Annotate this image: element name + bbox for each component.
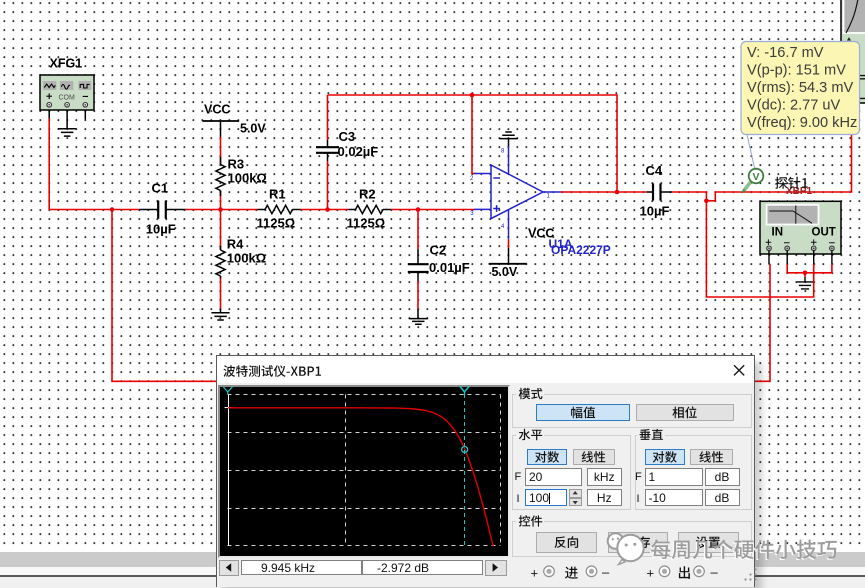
- svg-text:V: V: [752, 171, 759, 183]
- svg-text:C1: C1: [152, 181, 169, 196]
- svg-text:XBP1: XBP1: [786, 186, 813, 197]
- svg-text:10µF: 10µF: [640, 204, 670, 219]
- svg-text:5.0V: 5.0V: [240, 122, 266, 136]
- svg-text:C3: C3: [339, 129, 356, 144]
- svg-text:1: 1: [547, 194, 551, 200]
- svg-text:10µF: 10µF: [146, 222, 176, 237]
- svg-text:V(p-p): 151 mV: V(p-p): 151 mV: [747, 63, 846, 79]
- svg-text:3: 3: [470, 211, 474, 217]
- svg-text:R2: R2: [359, 187, 376, 202]
- svg-text:OPA2227P: OPA2227P: [551, 243, 611, 257]
- svg-text:COM: COM: [59, 95, 76, 102]
- svg-text:C4: C4: [646, 163, 663, 178]
- svg-text:1125Ω: 1125Ω: [347, 216, 386, 231]
- svg-text:V: -16.7 mV: V: -16.7 mV: [747, 45, 824, 61]
- svg-text:1125Ω: 1125Ω: [257, 216, 296, 231]
- svg-text:C2: C2: [430, 243, 447, 258]
- svg-text:2: 2: [470, 176, 474, 182]
- svg-text:8: 8: [501, 149, 505, 155]
- svg-text:R4: R4: [227, 237, 244, 252]
- svg-text:R1: R1: [269, 187, 286, 202]
- svg-text:5.0V: 5.0V: [492, 265, 518, 279]
- svg-text:OUT: OUT: [812, 226, 836, 238]
- svg-text:V(rms): 54.3 mV: V(rms): 54.3 mV: [747, 80, 853, 96]
- svg-text:100kΩ: 100kΩ: [228, 171, 267, 186]
- svg-text:100kΩ: 100kΩ: [227, 250, 266, 265]
- svg-text:IN: IN: [772, 226, 784, 238]
- svg-text:XFG1: XFG1: [50, 57, 83, 71]
- svg-text:0.02µF: 0.02µF: [338, 144, 379, 159]
- svg-text:4: 4: [501, 224, 505, 230]
- svg-text:R3: R3: [228, 157, 245, 172]
- svg-text:VCC: VCC: [204, 102, 230, 116]
- svg-text:V(dc): 2.77 uV: V(dc): 2.77 uV: [747, 97, 841, 113]
- svg-text:0.01µF: 0.01µF: [429, 260, 470, 275]
- svg-text:V(freq): 9.00 kHz: V(freq): 9.00 kHz: [747, 115, 857, 131]
